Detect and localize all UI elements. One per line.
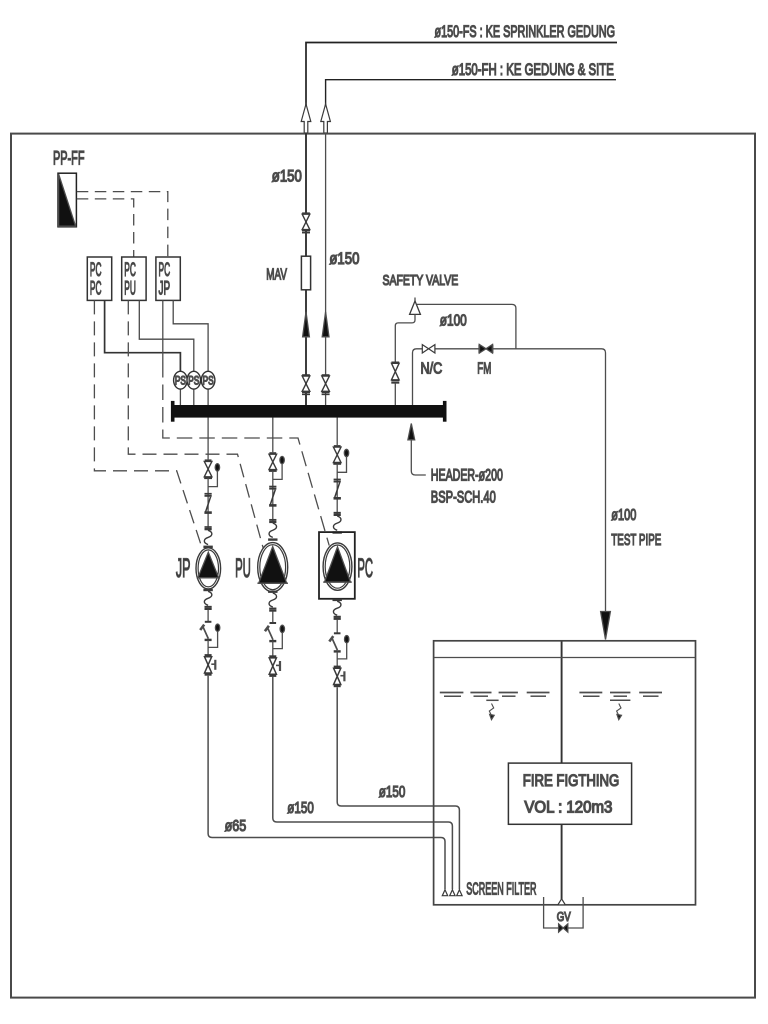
pipe header to pump PU: [272, 418, 274, 453]
svg-text:PC: PC: [90, 279, 102, 300]
tank divider wall: [561, 641, 563, 899]
check valve with ball PU discharge: [269, 452, 276, 454]
check valve PU suction: [270, 622, 277, 624]
svg-text:PU: PU: [124, 279, 136, 300]
svg-text:ø150: ø150: [329, 250, 359, 268]
svg-text:N/C: N/C: [421, 360, 443, 377]
pipe safety valve discharge: [417, 304, 516, 348]
water level mark: [440, 692, 464, 694]
pressure switch PS2: [193, 389, 195, 405]
panel PP-FF: [58, 173, 76, 227]
flange pair PC: [334, 512, 341, 514]
flange pair PU: [269, 519, 276, 521]
check valve with ball JP discharge: [205, 459, 212, 461]
box PC-PC: [87, 257, 111, 300]
pump PC enclosure: [319, 532, 355, 599]
pipe PU: [272, 471, 274, 523]
svg-text:SCREEN FILTER: SCREEN FILTER: [466, 879, 536, 899]
pipe header to pump JP: [207, 418, 209, 460]
valve N/C: [422, 345, 428, 353]
union PC: [335, 483, 340, 498]
wire box3 to pump PC (solid then dashed): [162, 300, 164, 362]
svg-text:JP: JP: [159, 279, 171, 300]
svg-text:JP: JP: [176, 553, 191, 583]
gate valve PU suction: [269, 655, 276, 657]
svg-text:PS: PS: [203, 375, 214, 387]
arrow up FS at border: [301, 104, 311, 133]
valve below safety valve: [391, 361, 399, 363]
wire box3 to PS3: [173, 300, 208, 371]
wire box1 to PS1: [105, 300, 181, 371]
header pipe (black bar): [173, 405, 445, 418]
box PC-JP: [156, 257, 180, 300]
safety valve symbol: [414, 298, 416, 302]
pipe FH riser: [325, 133, 327, 405]
check valve PC suction: [334, 632, 341, 634]
pump PC: [323, 543, 352, 590]
svg-text:ø150: ø150: [379, 784, 406, 801]
flexible joint PU: [269, 523, 277, 537]
svg-text:PS: PS: [188, 375, 199, 387]
flow arrow FH: [322, 312, 329, 337]
suction pipe PC: [337, 687, 459, 889]
svg-text:SAFETY VALVE: SAFETY VALVE: [383, 272, 459, 289]
pipe FS riser: [305, 133, 307, 405]
air valve MAV: [301, 256, 310, 290]
svg-text:TEST PIPE: TEST PIPE: [611, 532, 661, 549]
union JP: [206, 497, 211, 512]
svg-text:ø100: ø100: [440, 313, 467, 330]
pipe safety valve inlet: [395, 314, 415, 361]
label box FIRE FIGTHING: [508, 763, 631, 824]
flange pair PC: [334, 479, 341, 481]
valve FH above header: [322, 374, 330, 376]
water level mark: [579, 692, 602, 694]
pump JP: [196, 548, 221, 589]
svg-text:ø100: ø100: [611, 507, 636, 524]
svg-text:ø150-FH : KE GEDUNG & SITE: ø150-FH : KE GEDUNG & SITE: [452, 60, 614, 79]
pressure switch PS3: [207, 389, 209, 405]
suction fittings PU: [268, 591, 277, 593]
svg-text:VOL : 120m3: VOL : 120m3: [524, 799, 612, 817]
svg-text:PU: PU: [235, 553, 251, 583]
pump PU: [258, 543, 288, 592]
svg-text:FM: FM: [477, 360, 491, 377]
flexible joint JP: [204, 530, 212, 544]
wire dashed box2 to pump PU: [128, 300, 263, 548]
suction pipe PU: [273, 677, 453, 889]
svg-text:MAV: MAV: [266, 267, 287, 284]
svg-text:PC: PC: [357, 553, 373, 583]
arrow up FH at border: [321, 104, 331, 133]
check valve JP suction: [205, 621, 212, 623]
arrow test pipe into tank: [601, 612, 611, 640]
flange pair PU: [269, 486, 276, 488]
flange pair JP: [205, 526, 212, 528]
wire FH discharge to building: [326, 80, 616, 133]
flexible joint PC: [333, 516, 341, 530]
flow meter FM: [479, 345, 486, 354]
svg-text:ø150: ø150: [287, 800, 314, 817]
check valve with ball PC discharge: [334, 445, 341, 447]
svg-text:FIRE FIGTHING: FIRE FIGTHING: [523, 772, 620, 790]
svg-text:GV: GV: [557, 910, 572, 924]
wire dashed panel to box PC-PU: [77, 199, 134, 257]
suction pipe JP: [208, 676, 445, 890]
pipe JP: [207, 478, 209, 530]
wire dashed panel to box PC-JP: [77, 192, 168, 257]
pipe test line from header: [413, 349, 606, 612]
gate valve JP suction: [205, 654, 212, 656]
wire box2 to PS2: [139, 300, 194, 371]
pipe PC: [336, 464, 338, 516]
flange pair JP: [205, 493, 212, 495]
svg-text:HEADER-ø200: HEADER-ø200: [431, 466, 503, 484]
svg-text:ø150: ø150: [272, 168, 302, 186]
union PU: [270, 490, 275, 505]
drain bypass with valve GV: [544, 897, 584, 928]
valve FS above header: [302, 374, 310, 376]
svg-text:ø150-FS : KE SPRINKLER GEDUNG: ø150-FS : KE SPRINKLER GEDUNG: [435, 22, 616, 41]
suction fittings PC: [333, 599, 342, 601]
leader arrow to header: [411, 439, 426, 475]
flow arrow FS: [303, 312, 310, 337]
box PC-PU: [122, 257, 146, 300]
pressure switch PS1: [179, 389, 181, 405]
wire FS discharge to sprinkler: [306, 43, 617, 134]
wire dashed box1 to pump JP: [94, 300, 202, 550]
gate valve PC suction: [334, 666, 341, 668]
svg-text:BSP-SCH.40: BSP-SCH.40: [431, 488, 496, 506]
water tank: [434, 641, 696, 905]
svg-text:PP-FF: PP-FF: [53, 149, 85, 170]
svg-text:PS: PS: [175, 375, 186, 387]
tank sump outlet: [558, 899, 565, 905]
pipe header to pump PC: [336, 418, 338, 446]
svg-text:ø65: ø65: [225, 818, 247, 835]
screen filter triangles: [442, 890, 447, 896]
valve on FS riser: [302, 212, 310, 214]
suction fittings JP: [203, 589, 212, 591]
